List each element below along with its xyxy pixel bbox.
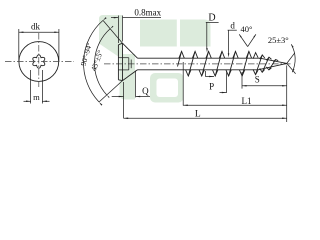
svg-text:L: L [195,109,201,119]
svg-text:P: P [209,82,214,92]
svg-text:D: D [208,12,215,23]
svg-text:Q: Q [142,86,149,96]
svg-text:dk: dk [31,22,41,32]
svg-text:m: m [33,92,40,102]
svg-text:25±3°: 25±3° [268,35,289,45]
svg-text:S: S [255,75,260,85]
svg-text:d: d [230,21,235,31]
svg-text:0.8max: 0.8max [134,7,161,17]
svg-text:40°: 40° [241,24,253,34]
svg-text:L1: L1 [242,96,252,106]
